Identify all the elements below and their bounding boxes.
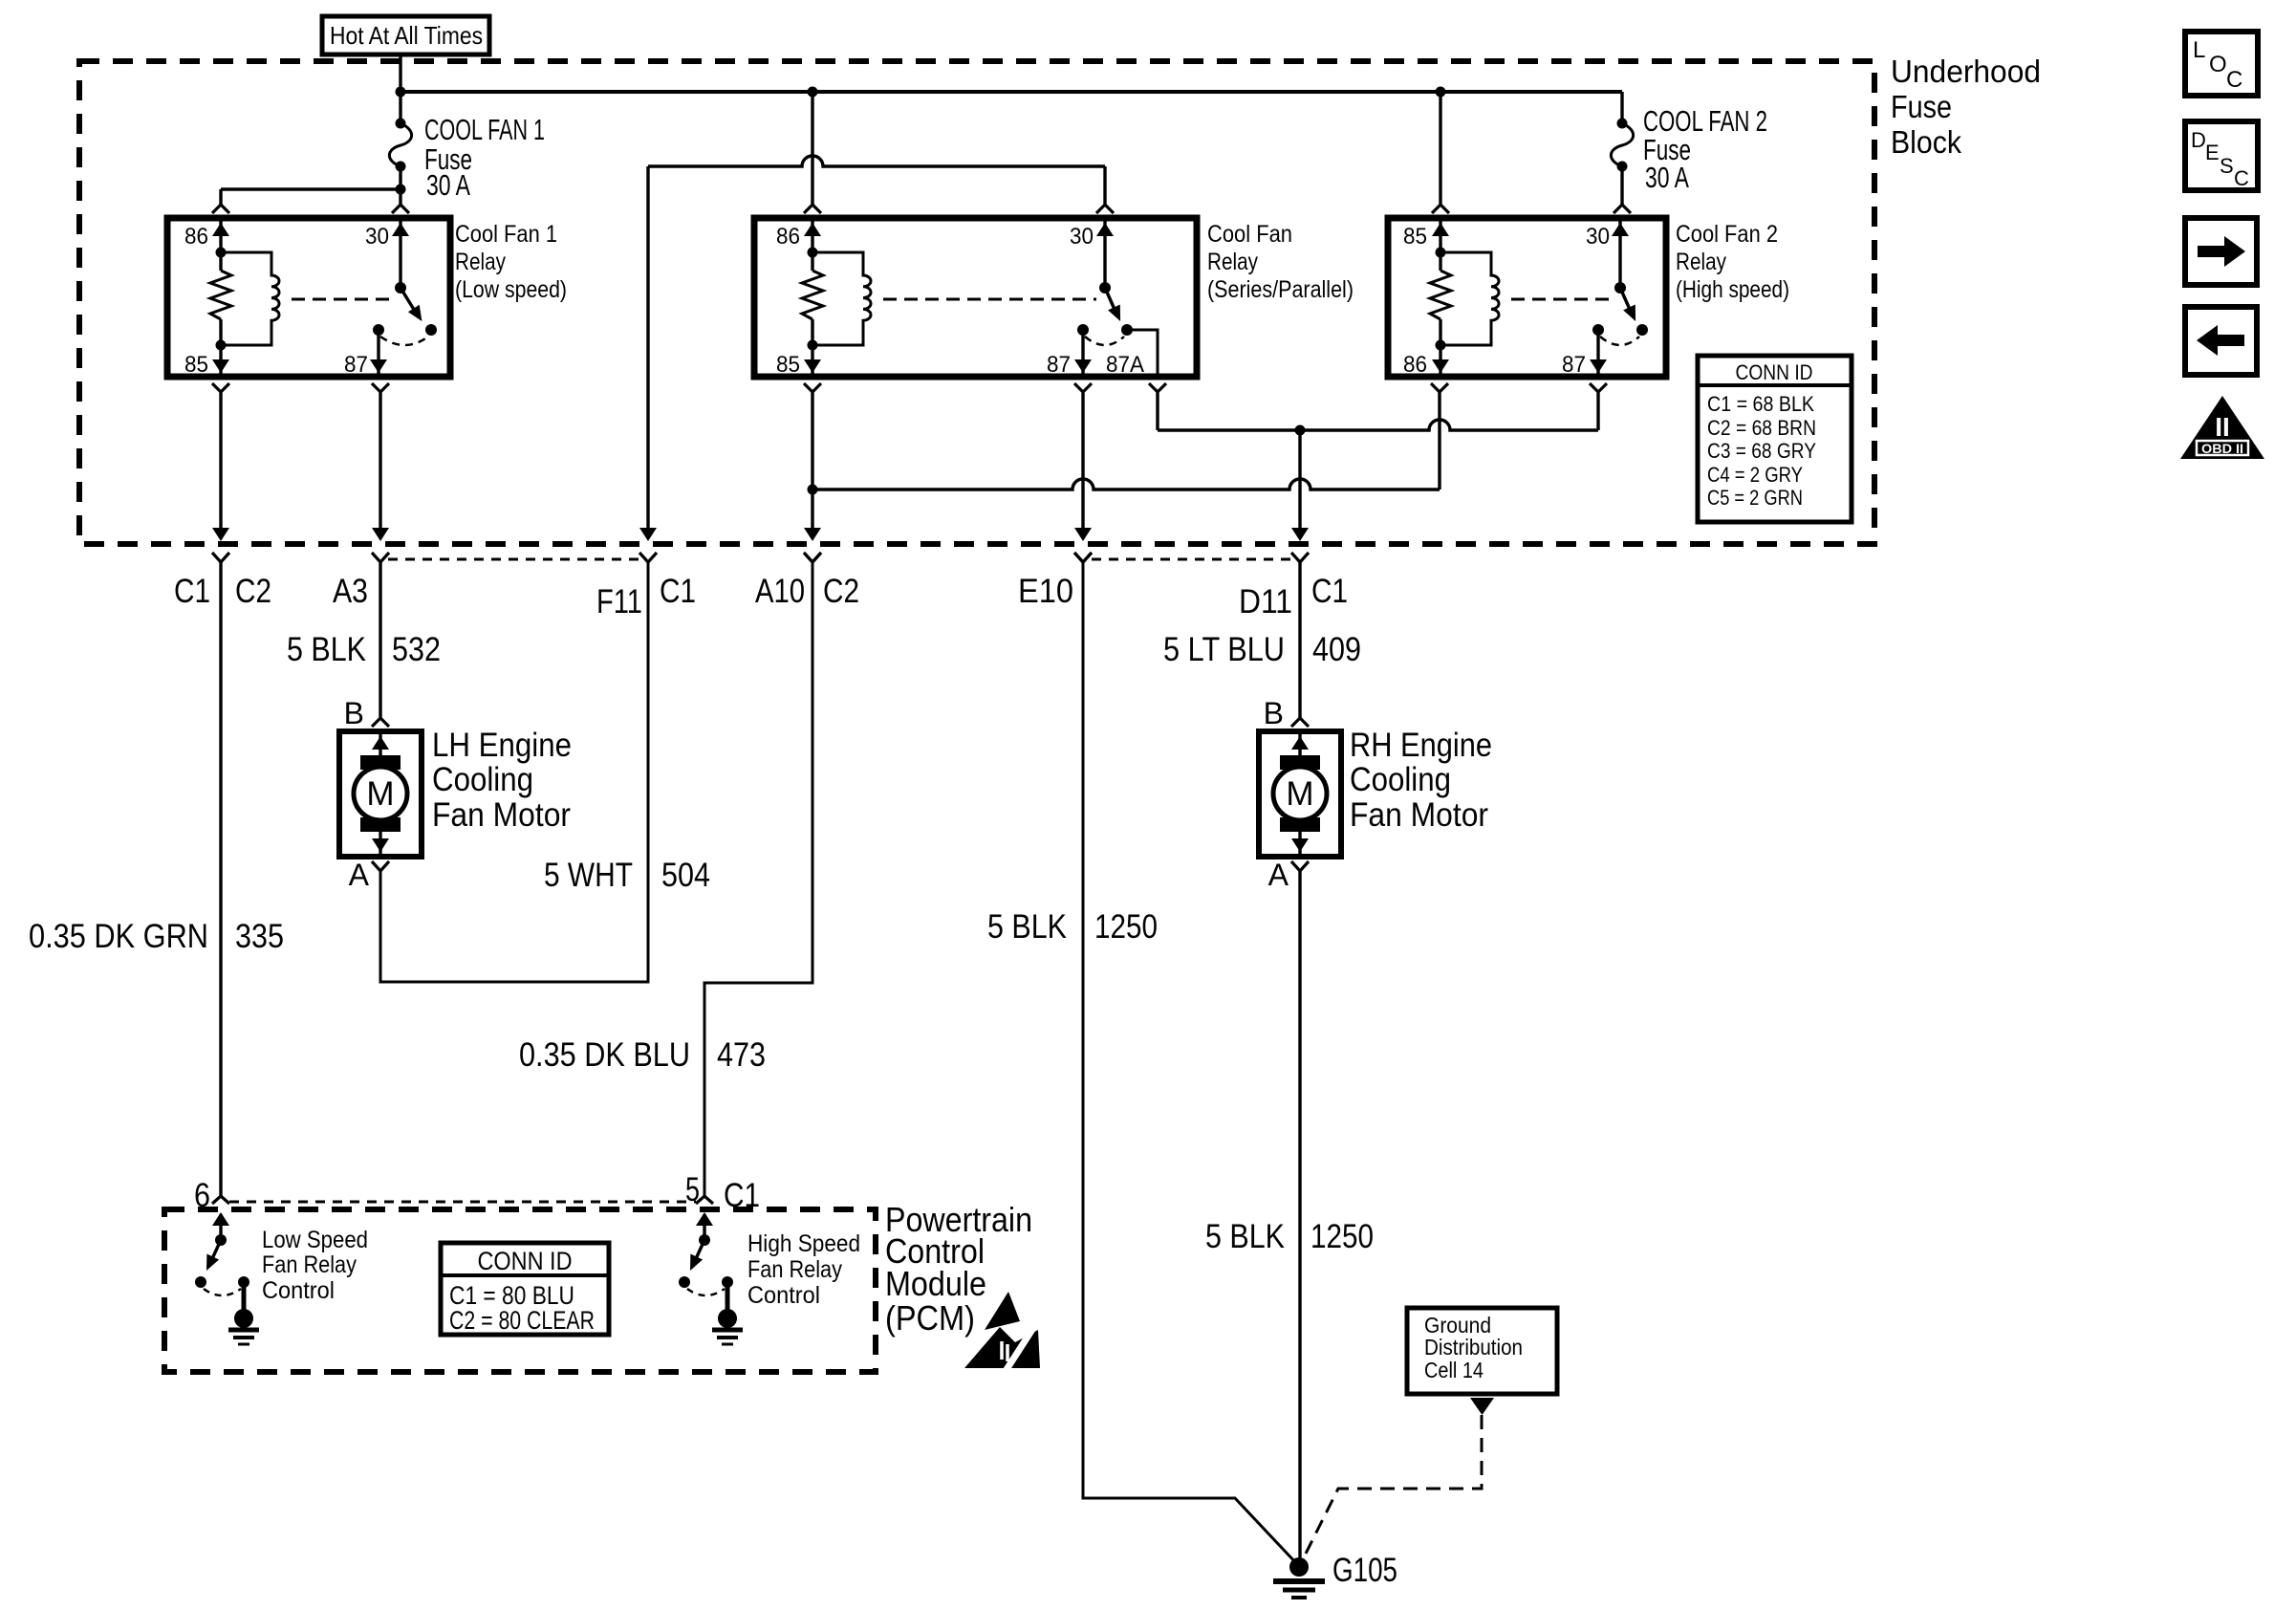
- wire 532 label: [287, 631, 441, 668]
- Powertrain Control Module dashed border: [164, 1209, 876, 1372]
- relay K1 Cool Fan 1 coil: [221, 252, 279, 345]
- relay K3 Cool Fan 2 pin 86 lead: [1432, 345, 1449, 375]
- relay box: K2 Cool Fan S/P: [754, 218, 1197, 377]
- svg-text:1250: 1250: [1094, 908, 1158, 946]
- svg-text:Underhood: Underhood: [1891, 54, 2041, 89]
- label: Low Speed Fan Relay Control: [262, 1227, 368, 1304]
- relay K3 Cool Fan 2 actuation dashed link: [1511, 298, 1612, 301]
- svg-text:5 LT BLU: 5 LT BLU: [1163, 631, 1285, 668]
- fuse F1: COOL FAN 1 Fuse 30 A: [389, 92, 411, 189]
- svg-text:LH Engine: LH Engine: [432, 727, 572, 764]
- relay K2 Cool Fan S/P resistor: [802, 252, 823, 345]
- wire 1250 label (upper): [987, 908, 1158, 946]
- svg-text:473: 473: [717, 1036, 766, 1074]
- wire: bus to relay K3 pin 85: [1432, 92, 1449, 213]
- relay box: K3 Cool Fan 2: [1388, 218, 1666, 377]
- svg-text:C1 = 68 BLK: C1 = 68 BLK: [1707, 392, 1814, 416]
- node PCM pin 5 label: [685, 1171, 760, 1214]
- icon: previous arrow button: [2185, 307, 2257, 375]
- svg-text:E: E: [2205, 141, 2220, 164]
- LH Engine Cooling Fan Motor M1 M marking: [366, 775, 394, 813]
- wire 409: C1 D11 to RH fan motor B: [1291, 562, 1309, 727]
- svg-text:II: II: [2215, 412, 2230, 442]
- relay K1 Cool Fan 1 resistor: [210, 252, 231, 345]
- PCM low speed fan relay driver switch pivot: [215, 1234, 227, 1246]
- icon: LOC button: [2185, 32, 2258, 96]
- relay K1 Cool Fan 1 pin 86 lead: [212, 221, 229, 252]
- RH Engine Cooling Fan Motor M2 commutator blocks: [1280, 755, 1320, 832]
- wire: fuse 1 to relay K1 pin 30: [392, 189, 409, 213]
- svg-text:Cell 14: Cell 14: [1424, 1358, 1484, 1382]
- relay K2 Cool Fan S/P coil: [812, 252, 871, 345]
- node A label (LH motor): [349, 858, 370, 892]
- PCM high speed fan relay driver ground pole: [722, 1276, 733, 1314]
- svg-text:Cool Fan: Cool Fan: [1207, 221, 1292, 248]
- dashed route: ground distribution to G105: [1304, 1415, 1482, 1557]
- wire 409 label: [1163, 631, 1361, 668]
- wire: fuse 2 to relay K3 pin 30: [1614, 189, 1631, 213]
- svg-text:0.35 DK GRN: 0.35 DK GRN: [29, 918, 208, 955]
- svg-text:OBD II: OBD II: [2201, 441, 2243, 456]
- wire: F11 riser to relay K2 pin 30: [639, 156, 1114, 541]
- svg-text:D: D: [2191, 128, 2206, 152]
- svg-text:409: 409: [1312, 631, 1361, 668]
- Underhood Fuse Block dashed border: [79, 61, 1874, 544]
- node E10 label: [1018, 573, 1073, 610]
- PCM high speed fan relay driver switch pivot: [699, 1234, 710, 1246]
- svg-text:A: A: [349, 858, 370, 892]
- relay K1 pin labels: [184, 224, 389, 378]
- svg-text:COOL FAN 1: COOL FAN 1: [424, 113, 545, 146]
- svg-text:G105: G105: [1332, 1552, 1397, 1589]
- svg-text:CONN ID: CONN ID: [478, 1247, 573, 1275]
- wire: fuse 1 to relay K1 pin 86: [212, 189, 401, 213]
- relay K1 Cool Fan 1 pin 85 lead: [212, 345, 229, 375]
- LH Engine Cooling Fan Motor M1 commutator blocks: [360, 755, 401, 832]
- junction: bus at relay K2 pin 86 drop: [808, 87, 818, 98]
- relay box: K1 Cool Fan 1: [167, 218, 450, 377]
- svg-text:B: B: [1264, 696, 1284, 730]
- junction: bus at relay K3 pin 85 drop: [1436, 87, 1446, 98]
- svg-text:85: 85: [776, 352, 800, 378]
- wire 532: C1 A3 to LH fan motor B: [372, 562, 389, 727]
- relay K2 Cool Fan S/P pin 87 lead: [1074, 330, 1092, 375]
- svg-text:C2 = 68 BRN: C2 = 68 BRN: [1707, 416, 1816, 440]
- table: PCM CONN ID: [441, 1243, 609, 1335]
- relay K2 pin labels: [776, 224, 1144, 378]
- svg-text:335: 335: [235, 918, 284, 955]
- wire: relay K2 pin 85 to connector A10/C2: [804, 383, 821, 562]
- relay K3 Cool Fan 2 switch pivot: [1614, 282, 1626, 294]
- svg-text:Fuse: Fuse: [1891, 89, 1952, 124]
- svg-text:87: 87: [1047, 352, 1071, 378]
- ground G105 symbol: [1273, 1557, 1325, 1598]
- label: RH Engine Cooling Fan Motor: [1350, 727, 1492, 834]
- label: G105: [1332, 1552, 1397, 1589]
- connector dashed tie E10-D11: [1092, 558, 1291, 561]
- svg-text:87: 87: [344, 352, 368, 378]
- relay K1 Cool Fan 1 pin 87 lead: [370, 330, 387, 375]
- svg-text:Fan Motor: Fan Motor: [432, 796, 571, 834]
- motor box: RH Engine Cooling Fan Motor M2: [1259, 731, 1341, 857]
- wire 504: LH motor A to F11: [372, 553, 657, 982]
- relay K3 Cool Fan 2 pin 30 lead: [1612, 221, 1629, 288]
- svg-text:C: C: [2226, 67, 2242, 93]
- svg-text:30: 30: [365, 224, 389, 250]
- svg-text:5: 5: [685, 1171, 700, 1208]
- fuse F2: COOL FAN 2 Fuse 30 A: [1611, 92, 1633, 189]
- svg-text:532: 532: [392, 631, 441, 668]
- svg-text:D11: D11: [1239, 583, 1292, 620]
- label: Underhood Fuse Block: [1891, 54, 2041, 160]
- svg-text:S: S: [2220, 154, 2234, 178]
- node A10/C2 label: [755, 573, 859, 610]
- wire 1250: RH motor A to G105: [1291, 861, 1309, 1566]
- label: COOL FAN 1 Fuse 30 A: [424, 113, 545, 202]
- node B label (RH motor): [1264, 696, 1284, 730]
- junction: fuse 1 output tee: [396, 185, 406, 195]
- svg-text:Cooling: Cooling: [1350, 761, 1451, 798]
- relay K3 Cool Fan 2 switch arm: [1620, 288, 1635, 321]
- svg-text:30 A: 30 A: [426, 168, 470, 202]
- relay K3 Cool Fan 2 coil bottom junction: [1436, 340, 1446, 351]
- label: Cool Fan Relay (Series/Parallel): [1207, 221, 1354, 303]
- svg-text:Fan Motor: Fan Motor: [1350, 796, 1488, 834]
- icon: DESC button: [2185, 121, 2258, 190]
- svg-text:87A: 87A: [1106, 352, 1144, 378]
- wire 335 label: [29, 918, 284, 955]
- svg-text:C1: C1: [1311, 573, 1348, 610]
- wire: B+ bus: [401, 90, 1622, 94]
- label: Cool Fan 1 Relay (Low speed): [455, 221, 567, 303]
- label: Powertrain Control Module (PCM): [885, 1200, 1032, 1338]
- PCM low speed fan relay driver contact dashed arc: [204, 1289, 241, 1295]
- relay K1 Cool Fan 1 coil bottom junction: [216, 340, 227, 351]
- PCM high speed fan relay driver driver input arrow: [696, 1212, 713, 1240]
- svg-text:Fan Relay: Fan Relay: [747, 1256, 842, 1283]
- svg-text:C: C: [2234, 166, 2249, 190]
- wire: crossover drop to connector D11: [1291, 430, 1309, 562]
- PCM low speed fan relay driver driver input arrow: [212, 1212, 229, 1240]
- svg-text:30 A: 30 A: [1645, 161, 1689, 194]
- junction: bus at fuse 1: [396, 87, 406, 98]
- svg-text:5 WHT: 5 WHT: [544, 857, 633, 894]
- relay K2 Cool Fan S/P pin 87A lead: [1127, 330, 1158, 374]
- svg-text:C4 = 2 GRY: C4 = 2 GRY: [1707, 463, 1803, 487]
- wire 1250 label (lower): [1205, 1218, 1374, 1255]
- svg-text:Low Speed: Low Speed: [262, 1227, 368, 1253]
- relay K3 Cool Fan 2 coil: [1440, 252, 1499, 345]
- wire: battery feed into fuse block: [399, 54, 401, 94]
- callout box: Ground Distribution Cell 14: [1407, 1308, 1557, 1394]
- svg-text:A: A: [1268, 858, 1289, 892]
- relay K1 Cool Fan 1 switch arm: [401, 288, 422, 321]
- svg-text:5 BLK: 5 BLK: [1205, 1218, 1285, 1255]
- relay K1 Cool Fan 1 switch pivot: [395, 282, 406, 294]
- svg-text:C1: C1: [174, 573, 210, 610]
- wire 1250: E10 to G105: [1074, 553, 1297, 1564]
- svg-text:Cool Fan 1: Cool Fan 1: [455, 221, 557, 248]
- relay K2 Cool Fan S/P switch arm: [1105, 288, 1120, 321]
- relay K3 Cool Fan 2 pin 85 lead: [1432, 221, 1449, 252]
- relay K2 Cool Fan S/P contact dashed arc: [1085, 337, 1124, 345]
- node A3 label: [333, 573, 368, 610]
- node D11/C1 label: [1239, 573, 1348, 620]
- svg-text:O: O: [2209, 52, 2227, 77]
- svg-text:High Speed: High Speed: [747, 1230, 860, 1257]
- label: Cool Fan 2 Relay (High speed): [1676, 221, 1789, 303]
- svg-text:M: M: [366, 775, 394, 813]
- relay K3 pin labels: [1403, 224, 1610, 378]
- relay K2 Cool Fan S/P pin 87 fixed contact: [1077, 324, 1089, 336]
- svg-text:85: 85: [1403, 224, 1427, 250]
- svg-text:Fan Relay: Fan Relay: [262, 1251, 357, 1278]
- LH Engine Cooling Fan Motor M1 rotor circle: [354, 767, 407, 820]
- relay K1 Cool Fan 1 contact dashed arc: [380, 337, 428, 345]
- relay K2 Cool Fan S/P switch pivot: [1099, 282, 1111, 294]
- node B label (LH motor): [344, 696, 364, 730]
- relay K2 Cool Fan S/P coil bottom junction: [808, 340, 818, 351]
- svg-text:L: L: [2193, 37, 2205, 63]
- svg-text:E10: E10: [1018, 573, 1073, 610]
- svg-text:Relay: Relay: [1676, 249, 1726, 275]
- PCM high speed fan relay driver switch contact: [679, 1276, 690, 1288]
- svg-text:A3: A3: [333, 573, 368, 610]
- PCM high speed fan relay driver contact dashed arc: [687, 1289, 725, 1295]
- node F11/C1 label: [596, 573, 696, 620]
- relay K2 Cool Fan S/P actuation dashed link: [883, 298, 1096, 301]
- wire: relay K3 pin 86 to K2-85 wire: [812, 383, 1448, 490]
- wire: relay K2 pin 87A to relay K3 pin 87: [1149, 383, 1607, 430]
- svg-text:Cooling: Cooling: [432, 761, 533, 798]
- junction: K2-85 wire and K3-86 crossover: [808, 485, 818, 495]
- svg-text:F11: F11: [596, 583, 642, 620]
- svg-text:A10: A10: [755, 573, 805, 610]
- PCM low speed fan relay driver ground pole: [238, 1276, 249, 1314]
- node A label (RH motor): [1268, 858, 1289, 892]
- svg-text:Relay: Relay: [455, 249, 506, 275]
- PCM low speed fan relay driver internal ground: [228, 1309, 259, 1344]
- relay K2 Cool Fan S/P pin 30 lead: [1096, 221, 1114, 288]
- relay K1 Cool Fan 1 coil top junction: [216, 248, 227, 258]
- relay K2 Cool Fan S/P pin 86 lead: [804, 221, 821, 252]
- svg-text:Control: Control: [262, 1277, 335, 1304]
- svg-text:(High speed): (High speed): [1676, 276, 1789, 303]
- node C1/C2 label: [174, 573, 271, 610]
- svg-text:86: 86: [1403, 352, 1427, 378]
- relay K1 Cool Fan 1 pin 30 lead: [392, 221, 409, 288]
- svg-text:C2: C2: [823, 573, 859, 610]
- relay K3 Cool Fan 2 pin 87 lead: [1590, 330, 1607, 375]
- connector dashed tie A3-F11: [388, 558, 639, 561]
- svg-text:(Low speed): (Low speed): [455, 276, 567, 303]
- PCM low speed fan relay driver switch contact: [195, 1276, 206, 1288]
- svg-text:87: 87: [1562, 352, 1586, 378]
- label: LH Engine Cooling Fan Motor: [432, 727, 572, 834]
- svg-text:Module: Module: [885, 1264, 986, 1303]
- wire: relay K1 pin 87 to connector A3: [372, 383, 389, 562]
- svg-text:5 BLK: 5 BLK: [987, 908, 1067, 946]
- PCM high speed fan relay driver internal ground: [712, 1309, 743, 1344]
- RH Engine Cooling Fan Motor M2 armature leads: [1291, 734, 1309, 854]
- svg-text:M: M: [1286, 775, 1313, 813]
- svg-text:C1: C1: [660, 573, 696, 610]
- PCM low speed fan relay driver switch arm: [206, 1240, 221, 1271]
- wire 473 label: [519, 1036, 766, 1074]
- relay K1 Cool Fan 1 actuation dashed link: [292, 298, 392, 301]
- label: COOL FAN 2 Fuse 30 A: [1643, 104, 1767, 194]
- symbol: cell reference triangle: [1470, 1398, 1494, 1415]
- wire 335: C1 C2 to PCM pin 6: [212, 562, 229, 1204]
- relay K1 Cool Fan 1 switch moving contact: [425, 324, 437, 336]
- svg-text:CONN ID: CONN ID: [1736, 360, 1813, 384]
- relay K3 Cool Fan 2 contact dashed arc: [1600, 337, 1639, 345]
- symbol: ESD sensitive device (PCM): [964, 1292, 1040, 1371]
- svg-text:30: 30: [1070, 224, 1094, 250]
- svg-text:RH Engine: RH Engine: [1350, 727, 1492, 764]
- LH Engine Cooling Fan Motor M1 armature leads: [372, 734, 389, 854]
- svg-text:Hot At All Times: Hot At All Times: [330, 21, 483, 50]
- wire: bus to relay K2 pin 86: [804, 92, 821, 213]
- svg-text:86: 86: [776, 224, 800, 250]
- relay K2 Cool Fan S/P coil top junction: [808, 248, 818, 258]
- svg-text:30: 30: [1586, 224, 1610, 250]
- svg-text:Cool Fan 2: Cool Fan 2: [1676, 221, 1778, 248]
- PCM high speed fan relay driver switch arm: [690, 1240, 704, 1271]
- relay K2 Cool Fan S/P switch moving contact: [1121, 324, 1133, 336]
- icon: OBD II triangle: [2180, 396, 2264, 459]
- relay K3 Cool Fan 2 resistor: [1430, 252, 1451, 345]
- svg-text:C2 = 80 CLEAR: C2 = 80 CLEAR: [449, 1306, 595, 1335]
- svg-text:5 BLK: 5 BLK: [287, 631, 366, 668]
- power source label: Hot At All Times: [322, 16, 489, 54]
- svg-text:(PCM): (PCM): [885, 1298, 975, 1338]
- svg-text:1250: 1250: [1310, 1218, 1374, 1255]
- junction: 87A crossover to D11 drop: [1295, 425, 1306, 436]
- relay K1 Cool Fan 1 pin 87 fixed contact: [373, 324, 384, 336]
- motor box: LH Engine Cooling Fan Motor M1: [339, 731, 422, 857]
- svg-text:Distribution: Distribution: [1424, 1335, 1523, 1360]
- connector dashed tie PCM 6-5: [229, 1201, 696, 1204]
- table: fuse block CONN ID: [1698, 356, 1852, 522]
- svg-text:86: 86: [184, 224, 208, 250]
- label: High Speed Fan Relay Control: [747, 1230, 860, 1309]
- svg-text:504: 504: [661, 857, 710, 894]
- relay K3 Cool Fan 2 pin 87 fixed contact: [1592, 324, 1604, 336]
- node PCM pin 6 label: [194, 1177, 210, 1214]
- RH Engine Cooling Fan Motor M2 rotor circle: [1273, 767, 1327, 820]
- svg-text:C3 = 68 GRY: C3 = 68 GRY: [1707, 439, 1816, 463]
- svg-text:Block: Block: [1891, 124, 1961, 160]
- wire 473: A10 C2 to PCM pin 5: [696, 553, 821, 1204]
- RH Engine Cooling Fan Motor M2 M marking: [1286, 775, 1313, 813]
- svg-text:C2: C2: [235, 573, 271, 610]
- svg-text:Control: Control: [747, 1282, 820, 1309]
- relay K2 Cool Fan S/P pin 85 lead: [804, 345, 821, 375]
- svg-text:(Series/Parallel): (Series/Parallel): [1207, 276, 1354, 303]
- svg-text:B: B: [344, 696, 364, 730]
- svg-text:Relay: Relay: [1207, 249, 1258, 275]
- icon: next arrow button: [2185, 218, 2257, 285]
- svg-text:85: 85: [184, 352, 208, 378]
- wire: relay K1 pin 85 to connector C1/C2: [212, 383, 229, 562]
- wire: relay K2 pin 87 to connector E10: [1074, 383, 1092, 562]
- svg-text:C5 = 2 GRN: C5 = 2 GRN: [1707, 486, 1803, 510]
- svg-text:0.35 DK BLU: 0.35 DK BLU: [519, 1036, 690, 1074]
- relay K3 Cool Fan 2 switch moving contact: [1636, 324, 1648, 336]
- relay K3 Cool Fan 2 coil top junction: [1436, 248, 1446, 258]
- wire 504 label: [544, 857, 710, 894]
